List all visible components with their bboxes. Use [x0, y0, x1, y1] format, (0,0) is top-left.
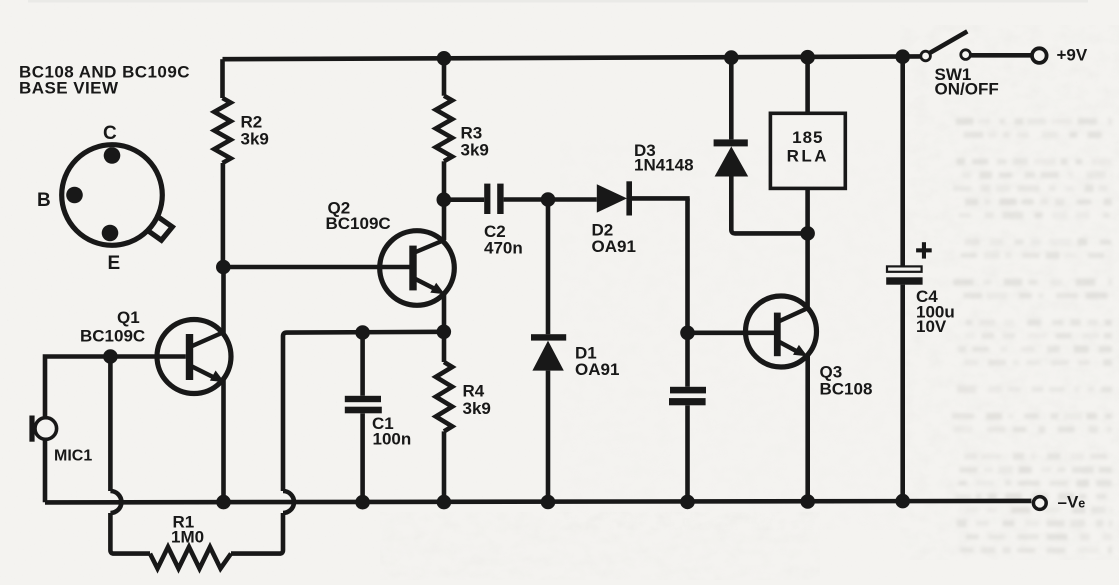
svg-text:OA91: OA91: [575, 360, 619, 379]
svg-text:C: C: [103, 123, 117, 144]
svg-text:Q1: Q1: [117, 308, 140, 327]
svg-text:BASE VIEW: BASE VIEW: [19, 79, 119, 98]
svg-text:B: B: [37, 190, 51, 211]
svg-text:3k9: 3k9: [463, 399, 491, 418]
svg-text:ON/OFF: ON/OFF: [935, 80, 999, 99]
svg-text:RLA: RLA: [787, 147, 829, 166]
svg-text:BC109C: BC109C: [326, 214, 391, 233]
svg-text:1N4148: 1N4148: [634, 156, 694, 175]
svg-text:1M0: 1M0: [171, 528, 204, 547]
svg-text:3k9: 3k9: [461, 141, 489, 160]
svg-text:BC109C: BC109C: [80, 327, 145, 346]
svg-text:470n: 470n: [484, 239, 523, 258]
svg-text:R4: R4: [463, 382, 485, 401]
svg-text:100n: 100n: [373, 430, 412, 449]
svg-text:3k9: 3k9: [241, 130, 269, 149]
svg-text:185: 185: [792, 128, 823, 147]
svg-text:BC108: BC108: [820, 380, 873, 399]
svg-text:10V: 10V: [916, 317, 947, 336]
svg-text:+9V: +9V: [1057, 46, 1088, 65]
svg-text:MIC1: MIC1: [54, 448, 92, 465]
svg-text:E: E: [108, 253, 121, 274]
svg-text:OA91: OA91: [592, 237, 636, 256]
